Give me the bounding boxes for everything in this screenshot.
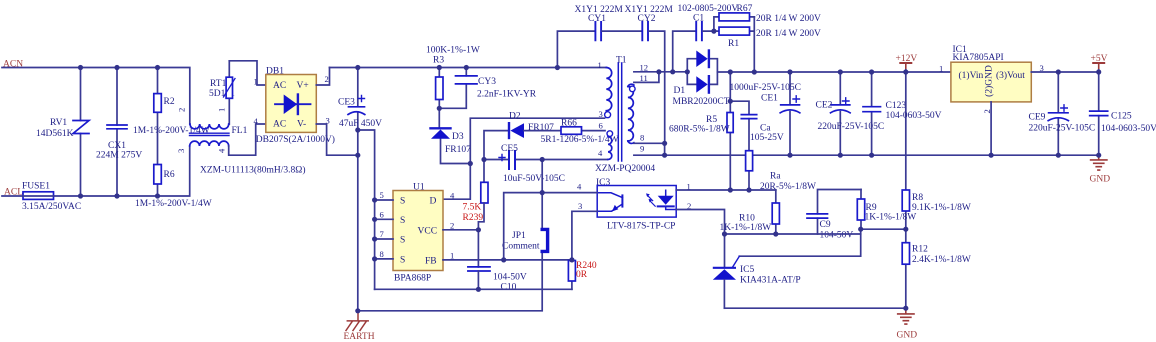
svg-text:9: 9 [640, 144, 644, 154]
wire IC3 pin3 to R240 [572, 211, 597, 260]
svg-text:R2: R2 [164, 97, 175, 107]
svg-text:R6: R6 [164, 170, 175, 180]
svg-text:R10: R10 [739, 214, 755, 224]
wire +12V sense divider [905, 70, 907, 190]
resistor R6 [135, 165, 212, 210]
wire T1 pin12/11 to D1 [634, 72, 687, 83]
wire to U1 source bus [358, 130, 375, 289]
svg-text:R8: R8 [912, 193, 923, 203]
svg-text:1: 1 [939, 64, 943, 74]
svg-text:FB: FB [425, 256, 437, 266]
svg-text:6: 6 [380, 209, 385, 219]
svg-text:D2: D2 [509, 112, 521, 122]
svg-text:C123: C123 [886, 101, 907, 111]
svg-text:V-: V- [297, 120, 306, 130]
ground symbol GND right [1090, 155, 1111, 184]
dual diode D1 MBR20200CT [673, 51, 730, 108]
resistor R9 [857, 190, 916, 230]
svg-text:20R 1/4 W 200V: 20R 1/4 W 200V [756, 29, 821, 39]
svg-text:8: 8 [380, 249, 384, 259]
svg-text:4: 4 [217, 148, 227, 153]
svg-text:1K-1%-1/8W: 1K-1%-1/8W [720, 223, 772, 233]
fuse FUSE1 [22, 182, 81, 213]
svg-text:104-50V: 104-50V [820, 231, 854, 241]
svg-text:FR107: FR107 [528, 123, 554, 133]
svg-text:14D561K: 14D561K [36, 129, 74, 139]
wire +5V rail [1031, 71, 1098, 73]
resistor R3 [426, 46, 480, 129]
svg-text:D: D [430, 197, 437, 207]
wire U1 FB pin1 net [443, 259, 572, 261]
svg-text:C125: C125 [1111, 112, 1132, 122]
capacitor CY3 [439, 68, 536, 109]
resistor R240 [568, 260, 596, 289]
capacitor CE1 [730, 72, 801, 155]
svg-text:3: 3 [599, 109, 603, 119]
svg-text:R66: R66 [561, 119, 577, 129]
capacitor CE3 [338, 68, 382, 131]
bridge rectifier DB1 [254, 67, 335, 146]
capacitor CX1 [96, 68, 142, 197]
svg-text:MBR20200CT: MBR20200CT [673, 97, 730, 107]
capacitor C1 [673, 4, 739, 72]
svg-text:R1: R1 [728, 39, 739, 49]
svg-text:JP1: JP1 [512, 231, 526, 241]
svg-text:(2)GND: (2)GND [983, 65, 994, 97]
resistor Ra [746, 151, 816, 192]
svg-text:220uF-25V-105C: 220uF-25V-105C [1029, 124, 1096, 134]
capacitor CY2 [625, 5, 674, 143]
svg-text:CE3: CE3 [338, 98, 355, 108]
resistor R10 [720, 190, 780, 234]
svg-text:1M-1%-200V-1/4W: 1M-1%-200V-1/4W [135, 199, 212, 209]
earth symbol EARTH [344, 312, 375, 342]
svg-text:7: 7 [380, 229, 385, 239]
svg-text:11: 11 [640, 73, 648, 83]
svg-text:4: 4 [577, 182, 582, 192]
svg-text:BPA868P: BPA868P [394, 274, 431, 284]
wire secondary ground rail [665, 154, 1099, 156]
svg-text:FL1: FL1 [232, 126, 248, 136]
svg-text:R12: R12 [912, 245, 928, 255]
wire primary ground rail [375, 288, 572, 290]
svg-text:220uF-25V-105C: 220uF-25V-105C [818, 122, 885, 132]
svg-text:2.2nF-1KV-YR: 2.2nF-1KV-YR [477, 90, 537, 100]
svg-text:CY2: CY2 [638, 14, 656, 24]
capacitor C123 [863, 72, 942, 155]
svg-text:EARTH: EARTH [344, 332, 375, 342]
svg-text:CY3: CY3 [478, 77, 496, 87]
svg-text:Comment: Comment [502, 242, 540, 252]
capacitor C125 [1090, 70, 1156, 155]
svg-text:104-0603-50V: 104-0603-50V [1101, 124, 1156, 134]
svg-text:2: 2 [177, 108, 187, 112]
svg-text:(1)Vin: (1)Vin [959, 70, 984, 81]
svg-text:CE2: CE2 [816, 101, 833, 111]
svg-text:1: 1 [254, 77, 258, 87]
svg-text:100K-1%-1W: 100K-1%-1W [426, 46, 480, 56]
optocoupler IC3 [577, 178, 691, 232]
svg-text:5R1-1206-5%-1/4W: 5R1-1206-5%-1/4W [541, 135, 619, 145]
svg-text:104-50V: 104-50V [493, 273, 527, 283]
wire IC3 pin1 LED anode [676, 189, 776, 191]
capacitor CE9 [1029, 72, 1096, 155]
wire R10 bottom net [725, 233, 861, 235]
resistor R239 [463, 182, 489, 267]
wire IC3 pin4 to FB [504, 193, 598, 260]
svg-text:3: 3 [176, 149, 186, 153]
svg-text:FR107: FR107 [445, 145, 471, 155]
resistor R5 [669, 72, 733, 190]
svg-text:CY1: CY1 [588, 14, 606, 24]
svg-text:2: 2 [325, 74, 329, 84]
controller U1 BPA868P [380, 183, 456, 284]
svg-text:DB207S(2A/1000V): DB207S(2A/1000V) [256, 134, 335, 145]
svg-text:9.1K-1%-1/8W: 9.1K-1%-1/8W [912, 203, 971, 213]
svg-text:1K-1%-1/8W: 1K-1%-1/8W [865, 213, 917, 223]
wire IC5 ref net [739, 229, 906, 256]
svg-text:680R-5%-1/8W: 680R-5%-1/8W [669, 125, 730, 135]
wire FL1 pin4 to DB1 pin4 [229, 124, 266, 155]
svg-text:5: 5 [380, 190, 384, 200]
resistor R8 [902, 190, 971, 229]
svg-text:XZM-PQ20004: XZM-PQ20004 [595, 164, 655, 174]
svg-text:4: 4 [450, 191, 455, 201]
svg-text:1: 1 [217, 108, 227, 112]
wire earth vertical [357, 130, 359, 311]
power symbol +12V [896, 54, 918, 70]
svg-text:R5: R5 [706, 115, 717, 125]
svg-text:10uF-50V-105C: 10uF-50V-105C [503, 174, 565, 184]
svg-text:224M 275V: 224M 275V [96, 151, 142, 161]
svg-text:VCC: VCC [418, 227, 438, 237]
diode D2 [484, 112, 561, 183]
svg-text:D1: D1 [674, 86, 686, 96]
ground symbol GND bottom [897, 308, 918, 340]
varistor RV1 [36, 68, 89, 197]
svg-text:8: 8 [640, 133, 644, 143]
svg-text:GND: GND [897, 331, 918, 341]
svg-text:6: 6 [599, 121, 604, 131]
capacitor C9 [807, 190, 861, 241]
svg-text:V+: V+ [297, 81, 309, 91]
svg-text:CE5: CE5 [501, 144, 518, 154]
svg-text:R9: R9 [866, 203, 877, 213]
LED inside IC3 [646, 190, 676, 209]
thermistor RT1 [209, 61, 235, 124]
svg-text:105-25V: 105-25V [750, 133, 784, 143]
svg-text:CE1: CE1 [761, 94, 778, 104]
wire ACL net [2, 146, 190, 196]
wire drain net T1 pin3 to U1 pin4 [443, 118, 605, 199]
svg-text:Ra: Ra [770, 172, 781, 182]
svg-text:7.5K: 7.5K [463, 203, 482, 213]
wire RT1 to DB1 pin1 [229, 61, 265, 85]
svg-text:1000uF-25V-105C: 1000uF-25V-105C [730, 83, 801, 93]
svg-text:3.15A/250VAC: 3.15A/250VAC [22, 202, 81, 212]
resistor R2 [133, 68, 210, 165]
svg-text:FUSE1: FUSE1 [22, 182, 50, 192]
svg-text:S: S [400, 197, 405, 207]
svg-text:R3: R3 [433, 56, 444, 66]
capacitor Ca [730, 101, 784, 151]
capacitor CY1 [557, 5, 641, 68]
wire T1 pin8/9 junction [634, 143, 665, 155]
svg-text:20R 1/4 W 200V: 20R 1/4 W 200V [756, 14, 821, 24]
node ACL [4, 188, 23, 198]
wire U1 VCC pin2 [443, 229, 478, 231]
svg-text:1: 1 [598, 60, 602, 70]
wire DB1 pin3 to earth node [316, 124, 358, 155]
resistor R12 [902, 229, 971, 308]
wire IC3 pin2 LED cathode to IC5 [676, 210, 724, 268]
svg-text:0R: 0R [576, 270, 588, 280]
capacitor CE5 [484, 144, 607, 184]
svg-text:4: 4 [254, 116, 259, 126]
capacitor CE2 [816, 72, 885, 155]
node ACN [3, 60, 23, 70]
svg-text:CX1: CX1 [108, 141, 126, 151]
svg-text:S: S [400, 255, 405, 265]
wire +12V rail [717, 71, 951, 73]
phototransistor inside IC3 [597, 193, 622, 212]
svg-text:XZM-U11113(80mH/3.8Ω): XZM-U11113(80mH/3.8Ω) [200, 165, 305, 176]
svg-text:KIA431A-AT/P: KIA431A-AT/P [740, 276, 801, 286]
svg-text:(3)Vout: (3)Vout [996, 70, 1025, 81]
svg-text:D3: D3 [452, 132, 464, 142]
wire secondary ground bottom [724, 307, 905, 309]
wire IC1 pin2 to ground rail [990, 102, 992, 155]
wire ACN net [2, 68, 190, 125]
svg-text:C10: C10 [501, 283, 517, 293]
svg-text:IC5: IC5 [740, 265, 755, 275]
svg-text:1: 1 [450, 251, 454, 261]
svg-text:104-0603-50V: 104-0603-50V [886, 111, 942, 121]
capacitor C10 [468, 267, 527, 293]
svg-text:4: 4 [598, 148, 603, 158]
svg-text:RT1: RT1 [210, 79, 227, 89]
common-mode choke FL1 [176, 108, 305, 176]
svg-text:C9: C9 [820, 220, 831, 230]
svg-text:AC: AC [273, 120, 286, 130]
transformer T1 [595, 56, 655, 175]
svg-text:RV1: RV1 [50, 118, 67, 128]
jumper JP1 [358, 160, 548, 311]
svg-text:S: S [400, 235, 405, 245]
regulator IC1 KIA7805API [939, 45, 1044, 114]
svg-text:2.4K-1%-1/8W: 2.4K-1%-1/8W [912, 255, 971, 265]
power symbol +5V [1091, 54, 1108, 70]
svg-text:20R-5%-1/8W: 20R-5%-1/8W [760, 182, 816, 192]
svg-text:47uF 450V: 47uF 450V [339, 119, 382, 129]
svg-text:S: S [400, 216, 405, 226]
svg-text:GND: GND [1090, 175, 1111, 185]
svg-text:LTV-817S-TP-CP: LTV-817S-TP-CP [607, 222, 675, 232]
diode D3 [431, 128, 472, 163]
shunt regulator IC5 KIA431 [713, 256, 801, 308]
wire DB1 pin2 to primary rail [316, 68, 329, 86]
resistor R66 [541, 119, 619, 146]
resistor R1 [719, 17, 821, 72]
wire primary +DC rail [330, 67, 607, 69]
svg-text:Ca: Ca [760, 124, 771, 134]
wire U1 source pin stubs [375, 200, 393, 259]
svg-text:AC: AC [273, 81, 286, 91]
resistor R67 [714, 4, 821, 31]
svg-text:3: 3 [578, 201, 582, 211]
svg-text:CE9: CE9 [1029, 113, 1046, 123]
